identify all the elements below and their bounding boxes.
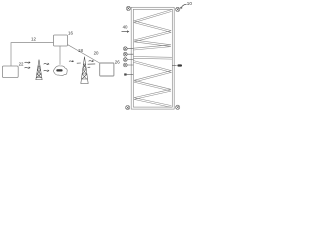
svg-text:40: 40 bbox=[123, 25, 128, 30]
wave arrow A8 bbox=[88, 63, 96, 65]
svg-text:12: 12 bbox=[31, 36, 36, 41]
svg-text:18: 18 bbox=[78, 48, 83, 53]
terminal T3 bbox=[123, 58, 133, 62]
corner circle top-right bbox=[176, 7, 180, 11]
svg-text:22: 22 bbox=[19, 62, 24, 67]
horizontal element ribbon bbox=[134, 57, 172, 60]
svg-text:16: 16 bbox=[68, 31, 73, 36]
diagonal wire box16 to box 26 bbox=[68, 45, 100, 63]
wave arrow A5 bbox=[69, 60, 73, 62]
terminal T1 bbox=[123, 47, 133, 51]
svg-text:20: 20 bbox=[94, 50, 99, 55]
leader line from box 16 down to cloud bbox=[59, 46, 61, 65]
box 26 (receiver) bbox=[100, 63, 114, 76]
wave arrow A7 bbox=[89, 60, 94, 62]
wave arrow A3 bbox=[44, 63, 49, 65]
svg-text:10: 10 bbox=[187, 1, 193, 6]
corner circle bottom-right bbox=[176, 105, 180, 109]
window panel outer frame bbox=[131, 7, 174, 109]
label 44 bbox=[177, 64, 182, 66]
bottom zigzag antenna ribbon (upper line) bbox=[134, 61, 172, 106]
leader 40 bbox=[122, 31, 129, 33]
window panel inner frame bbox=[133, 9, 172, 107]
cloud dark dash bbox=[56, 69, 62, 71]
tower 1 (radio mast) bbox=[36, 60, 43, 80]
box 16 (central station) bbox=[54, 35, 68, 46]
stub with pad at y74.5 bbox=[125, 74, 133, 76]
curved arrow to panel top-right bbox=[181, 4, 187, 8]
wire from box 22 to box 16 bbox=[11, 43, 54, 66]
cloud 14 bbox=[54, 66, 68, 76]
terminal T4 bbox=[123, 63, 133, 67]
wave arrow A1 bbox=[25, 62, 30, 64]
svg-text:26: 26 bbox=[115, 59, 120, 64]
box 22 (left transmitter station) bbox=[2, 66, 18, 78]
top zigzag antenna ribbon (upper line) bbox=[134, 10, 172, 49]
wave arrow A2 bbox=[25, 67, 30, 69]
wave arrow A6 bbox=[77, 62, 81, 64]
bottom zigzag antenna ribbon (lower line) bbox=[134, 62, 172, 107]
corner circle bottom-left bbox=[126, 106, 130, 110]
terminal T2 bbox=[123, 52, 133, 56]
top zigzag antenna ribbon (lower line) bbox=[134, 11, 172, 50]
wave arrow A9 bbox=[88, 66, 91, 68]
tower 2 (radio mast) bbox=[81, 57, 88, 84]
stub mid-right bbox=[172, 65, 177, 67]
corner circle top-left bbox=[126, 6, 130, 10]
wave arrow A4 bbox=[44, 70, 49, 72]
